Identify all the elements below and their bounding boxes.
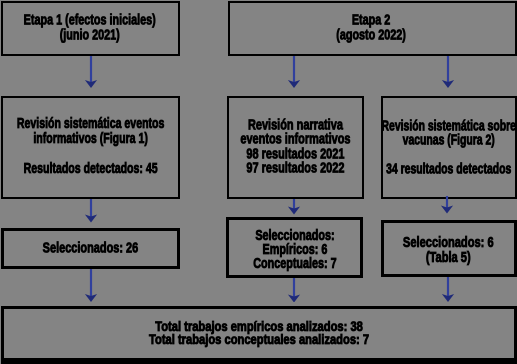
box B6: Seleccionados: 26 bbox=[1, 228, 181, 269]
box B7: Seleccionados Empiricos 6 Conceptuales 7 bbox=[226, 217, 363, 278]
arrow A4: B3 to B6 bbox=[84, 199, 98, 223]
box B3: Revision sistematica eventos informativos (Figura 1) bbox=[1, 96, 181, 199]
box B5: Revision sistematica sobre vacunas (Figura 2) bbox=[381, 96, 517, 199]
box B8: Seleccionados: 6 (Tabla 5) bbox=[381, 220, 517, 277]
arrow A8: B7 to B9 bbox=[287, 278, 301, 303]
box B2: Etapa 2 (agosto 2022) bbox=[228, 1, 517, 56]
arrow A2: Etapa2 to B4 bbox=[287, 56, 301, 88]
arrow A3: Etapa2 to B5 bbox=[441, 56, 455, 88]
arrow A7: B6 to B9 bbox=[84, 269, 98, 302]
arrow A6: B5 to B8 bbox=[440, 196, 454, 214]
arrow A5: B4 to B7 bbox=[287, 199, 301, 215]
arrow A1: Etapa1 to B3 bbox=[84, 56, 98, 88]
box B1: Etapa 1 (efectos iniciales) (junio 2021) bbox=[1, 1, 180, 56]
box B9: Total trabajos bbox=[1, 306, 517, 364]
box B4: Revision narrativa eventos informativos bbox=[227, 96, 364, 199]
arrow A9: B8 to B9 bbox=[441, 277, 455, 302]
